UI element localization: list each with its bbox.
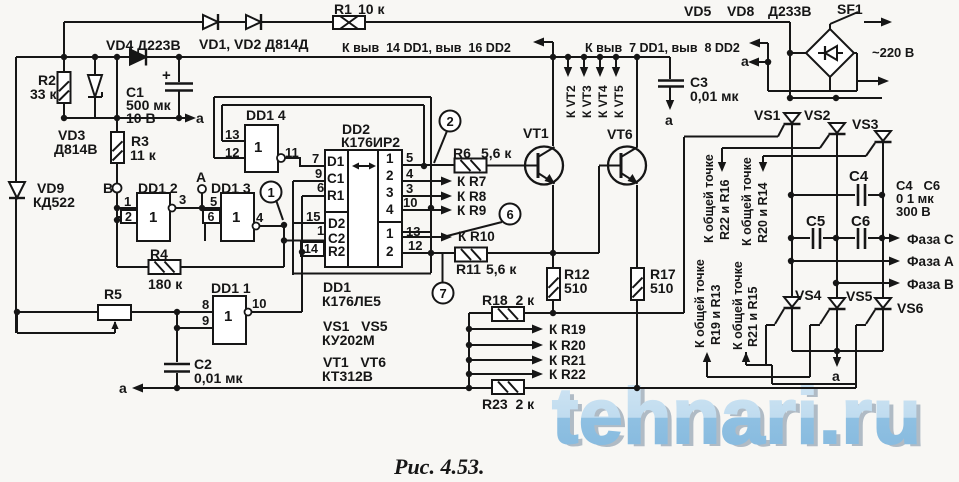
svg-text:tehnari.ru: tehnari.ru: [552, 371, 921, 460]
svg-text:VS6: VS6: [897, 300, 924, 316]
svg-text:+: +: [162, 67, 171, 84]
svg-text:C6: C6: [851, 213, 870, 230]
svg-text:R11: R11: [456, 261, 481, 277]
svg-text:К выв 14 DD1, выв 16 DD2: К выв 14 DD1, выв 16 DD2: [342, 41, 511, 55]
svg-text:7: 7: [440, 286, 447, 301]
svg-text:2: 2: [447, 114, 454, 129]
svg-text:33 к: 33 к: [30, 86, 57, 102]
svg-text:2: 2: [386, 168, 394, 183]
svg-text:SF1: SF1: [837, 1, 863, 17]
svg-text:5,6 к: 5,6 к: [481, 145, 512, 161]
svg-text:К общей точке: К общей точке: [693, 259, 707, 348]
svg-text:К R20: К R20: [549, 338, 586, 353]
svg-text:8: 8: [202, 297, 209, 312]
svg-text:К R7: К R7: [457, 174, 486, 189]
svg-text:Фаза C: Фаза C: [907, 232, 954, 247]
svg-text:К R22: К R22: [549, 367, 586, 382]
svg-text:VT1: VT1: [523, 125, 549, 141]
svg-text:9: 9: [315, 166, 322, 181]
svg-text:R23 2 к: R23 2 к: [482, 396, 535, 412]
svg-text:300 В: 300 В: [896, 204, 931, 219]
svg-text:15: 15: [306, 209, 320, 224]
svg-text:1: 1: [124, 194, 131, 209]
svg-text:3: 3: [386, 185, 394, 200]
svg-text:180 к: 180 к: [148, 276, 183, 292]
svg-text:2: 2: [386, 244, 394, 259]
svg-text:3: 3: [406, 181, 413, 196]
svg-text:a: a: [196, 110, 204, 126]
svg-text:КУ202М: КУ202М: [322, 332, 375, 348]
svg-text:VD5: VD5: [684, 3, 711, 19]
svg-text:7: 7: [312, 151, 319, 166]
svg-text:R20 и R14: R20 и R14: [756, 182, 770, 243]
svg-text:1: 1: [232, 209, 240, 226]
svg-text:В: В: [103, 180, 113, 196]
svg-text:Фаза А: Фаза А: [907, 254, 954, 269]
svg-text:a: a: [665, 112, 673, 128]
svg-text:D2: D2: [328, 216, 345, 231]
svg-text:10 к: 10 к: [358, 1, 385, 17]
svg-text:13: 13: [406, 224, 420, 239]
svg-text:КД522: КД522: [33, 194, 75, 210]
svg-text:К R9: К R9: [457, 203, 486, 218]
svg-text:DD1 4: DD1 4: [246, 107, 286, 123]
svg-text:DD1 1: DD1 1: [211, 280, 251, 296]
svg-text:4: 4: [256, 210, 264, 225]
svg-text:a: a: [119, 380, 127, 396]
svg-text:R22 и R16: R22 и R16: [718, 179, 732, 240]
svg-text:К VT4: К VT4: [596, 85, 610, 118]
svg-text:10: 10: [252, 296, 266, 311]
svg-text:VD1, VD2 Д814Д: VD1, VD2 Д814Д: [199, 36, 308, 52]
svg-text:R1: R1: [327, 188, 345, 203]
svg-text:R6: R6: [453, 145, 471, 161]
svg-text:R4: R4: [150, 246, 168, 262]
svg-text:VD4 Д223В: VD4 Д223В: [106, 37, 181, 53]
svg-text:D1: D1: [327, 154, 345, 169]
svg-text:10: 10: [403, 195, 417, 210]
svg-text:К VT2: К VT2: [564, 85, 578, 118]
svg-text:К общей точке: К общей точке: [731, 261, 745, 350]
svg-text:Рис. 4.53.: Рис. 4.53.: [393, 454, 484, 477]
svg-text:1: 1: [386, 226, 394, 241]
svg-text:VS2: VS2: [804, 107, 831, 123]
svg-text:5: 5: [210, 194, 217, 209]
svg-text:9: 9: [202, 313, 209, 328]
svg-text:6: 6: [507, 207, 514, 222]
svg-text:К176ЛЕ5: К176ЛЕ5: [322, 293, 381, 309]
svg-text:1: 1: [268, 185, 275, 200]
svg-text:Фаза B: Фаза B: [907, 277, 954, 292]
svg-text:К R8: К R8: [457, 189, 487, 204]
svg-text:К VT5: К VT5: [612, 85, 626, 118]
svg-text:6: 6: [208, 210, 215, 224]
svg-text:К176ИР2: К176ИР2: [341, 134, 400, 150]
svg-text:К общей точке: К общей точке: [702, 154, 716, 243]
svg-text:0,01 мк: 0,01 мк: [194, 370, 243, 386]
svg-text:R18 2 к: R18 2 к: [482, 292, 535, 308]
svg-text:510: 510: [564, 280, 588, 296]
svg-text:К R21: К R21: [549, 353, 586, 368]
svg-text:1: 1: [317, 223, 324, 238]
svg-text:VS4: VS4: [795, 287, 822, 303]
svg-text:КТ312В: КТ312В: [322, 368, 373, 384]
svg-text:К выв 7 DD1, выв 8 DD2: К выв 7 DD1, выв 8 DD2: [585, 41, 740, 55]
svg-text:1: 1: [386, 151, 394, 166]
svg-text:К общей точке: К общей точке: [740, 157, 754, 246]
svg-text:R2: R2: [328, 244, 345, 259]
svg-text:1: 1: [254, 139, 262, 156]
svg-text:11: 11: [285, 145, 299, 160]
svg-text:510: 510: [650, 280, 674, 296]
svg-text:0,01 мк: 0,01 мк: [690, 88, 739, 104]
svg-text:К VT3: К VT3: [580, 85, 594, 118]
svg-text:1: 1: [149, 209, 157, 226]
svg-text:VS3: VS3: [852, 116, 879, 132]
svg-text:6: 6: [317, 180, 324, 195]
svg-text:12: 12: [408, 238, 422, 253]
svg-text:VS1: VS1: [754, 107, 781, 123]
svg-text:1: 1: [224, 308, 232, 325]
svg-text:~220 В: ~220 В: [872, 45, 914, 60]
svg-text:C4: C4: [849, 168, 869, 185]
svg-text:R19 и R13: R19 и R13: [709, 284, 723, 345]
svg-text:C1: C1: [327, 171, 345, 186]
svg-text:VT6: VT6: [607, 126, 633, 142]
svg-text:DD1 2: DD1 2: [138, 180, 178, 196]
svg-text:Д233В: Д233В: [768, 3, 811, 19]
svg-text:VS5: VS5: [846, 288, 873, 304]
svg-text:А: А: [196, 169, 206, 185]
svg-text:12: 12: [225, 145, 239, 160]
svg-text:4: 4: [406, 166, 414, 181]
svg-text:C5: C5: [806, 213, 825, 230]
svg-text:5,6 к: 5,6 к: [486, 261, 517, 277]
svg-text:5: 5: [406, 150, 413, 165]
svg-text:R5: R5: [104, 286, 122, 302]
svg-text:Д814В: Д814В: [54, 141, 97, 157]
svg-text:R21 и R15: R21 и R15: [746, 286, 760, 347]
svg-text:R1: R1: [334, 1, 352, 17]
svg-text:2: 2: [125, 210, 132, 224]
svg-text:14: 14: [304, 242, 318, 256]
svg-text:VD8: VD8: [727, 3, 754, 19]
svg-text:a: a: [741, 53, 749, 69]
svg-text:4: 4: [386, 202, 394, 217]
svg-text:3: 3: [179, 192, 186, 207]
svg-text:К R19: К R19: [549, 322, 586, 337]
svg-text:10 В: 10 В: [126, 110, 156, 126]
svg-text:11 к: 11 к: [130, 147, 157, 163]
svg-text:a: a: [832, 368, 840, 384]
svg-text:13: 13: [225, 127, 239, 142]
